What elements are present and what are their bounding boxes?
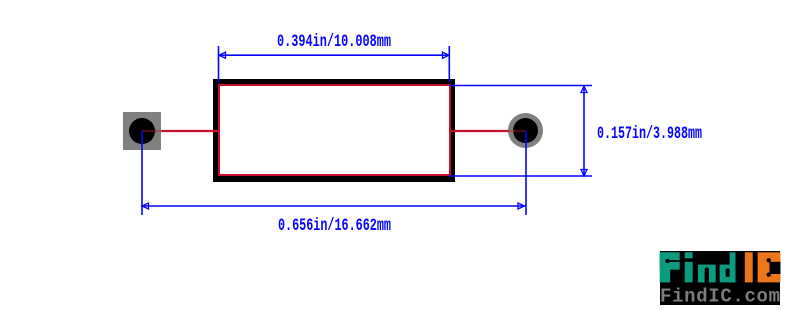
svg-text:0.157in/3.988mm: 0.157in/3.988mm	[597, 124, 702, 144]
svg-text:0.394in/10.008mm: 0.394in/10.008mm	[277, 32, 391, 52]
svg-text:0.656in/16.662mm: 0.656in/16.662mm	[278, 216, 391, 236]
svg-text:FindIC.com: FindIC.com	[660, 286, 780, 308]
